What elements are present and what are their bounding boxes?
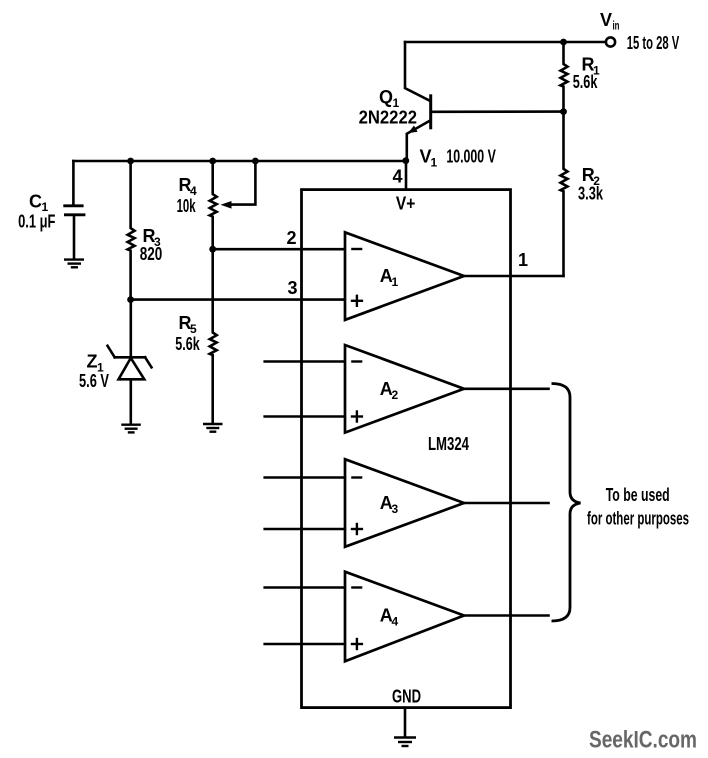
svg-text:4: 4	[393, 167, 403, 187]
svg-text:V+: V+	[396, 194, 415, 214]
potentiometer R4	[210, 161, 217, 249]
op-amp A2	[345, 345, 464, 433]
wire: A4 output	[464, 614, 549, 617]
svg-text:2: 2	[287, 228, 297, 248]
IC U1 LM324 box	[302, 190, 511, 708]
svg-text:3.3k: 3.3k	[578, 184, 604, 204]
capacitor C1	[63, 161, 85, 258]
svg-text:10.000 V: 10.000 V	[446, 147, 495, 167]
wire: A1 output (pin 1)	[464, 275, 564, 278]
ground (C1)	[64, 260, 84, 268]
svg-text:1: 1	[431, 156, 438, 170]
svg-text:2: 2	[392, 388, 399, 402]
svg-text:Z: Z	[87, 352, 98, 372]
wire: A2 inverting input stub	[265, 360, 345, 363]
op-amp A1	[345, 232, 464, 320]
resistor R3	[128, 161, 135, 300]
resistor R1	[561, 42, 568, 112]
brace: outputs grouped	[552, 384, 581, 622]
wire: A4 inverting input stub	[265, 586, 345, 589]
svg-text:V: V	[600, 10, 612, 30]
wire: top rail to Vin terminal	[405, 41, 605, 44]
resistor R5	[210, 249, 217, 423]
svg-text:3: 3	[392, 502, 399, 516]
wire: pin 3 input	[131, 298, 345, 301]
wire: A4 non-inverting input stub	[265, 643, 345, 646]
svg-text:5.6k: 5.6k	[573, 72, 598, 92]
svg-text:10k: 10k	[177, 196, 197, 216]
svg-text:5.6 V: 5.6 V	[79, 371, 109, 391]
svg-text:5.6k: 5.6k	[175, 334, 200, 354]
wire: pin 4 from V1 to IC box	[405, 161, 408, 190]
svg-text:To be used: To be used	[606, 485, 670, 505]
svg-text:in: in	[613, 19, 620, 33]
svg-text:15 to 28 V: 15 to 28 V	[627, 33, 680, 53]
wire: base of Q1 to R1/R2 junction	[431, 110, 564, 113]
svg-text:3: 3	[288, 278, 298, 298]
node: R4 bottom / pin 2 junction	[209, 246, 216, 253]
transistor Q1	[405, 42, 431, 161]
svg-text:GND: GND	[392, 687, 421, 707]
resistor R2	[561, 112, 568, 276]
node: base junction	[560, 108, 567, 115]
node: R4 top junction	[209, 158, 216, 165]
wire: A3 inverting input stub	[265, 476, 345, 479]
terminal Vin (open circle)	[606, 37, 615, 46]
node: wiper top junction	[252, 158, 259, 165]
wire: A2 output	[464, 387, 549, 390]
svg-text:for other purposes: for other purposes	[587, 509, 689, 529]
svg-text:1: 1	[392, 275, 399, 289]
node V1	[402, 157, 409, 164]
svg-text:C: C	[29, 192, 42, 212]
svg-text:Q: Q	[379, 87, 393, 107]
op-amp A3	[345, 459, 464, 547]
svg-text:1: 1	[518, 250, 528, 270]
node: Vin junction	[560, 39, 567, 46]
svg-text:0.1 μF: 0.1 μF	[18, 212, 55, 232]
svg-text:2N2222: 2N2222	[359, 108, 417, 128]
svg-text:4: 4	[392, 615, 399, 629]
svg-text:SeekIC.com: SeekIC.com	[589, 727, 697, 754]
node: R3 bottom / Z1 / pin 3 junction	[127, 296, 134, 303]
zener diode Z1	[108, 300, 152, 424]
node: rail/R3 junction	[127, 158, 134, 165]
op-amp A4	[345, 572, 464, 662]
wire: left rail from C1 to V1 node	[73, 160, 405, 163]
wiper of R4	[221, 161, 256, 209]
wire: A2 non-inverting input stub	[265, 415, 345, 418]
ground (IC)	[394, 708, 416, 746]
wire: A3 output	[464, 502, 549, 505]
ground (R5)	[203, 424, 223, 432]
svg-text:LM324: LM324	[428, 434, 469, 454]
wire: pin 2 input	[213, 248, 345, 251]
wire: A3 non-inverting input stub	[265, 528, 345, 531]
svg-text:820: 820	[140, 244, 163, 264]
ground (Z1)	[121, 425, 141, 433]
